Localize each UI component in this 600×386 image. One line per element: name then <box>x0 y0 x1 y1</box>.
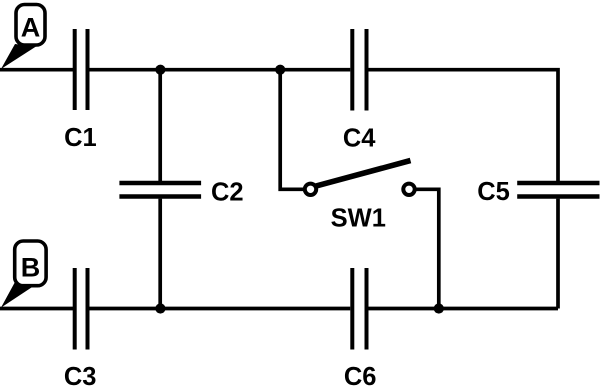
svg-text:C4: C4 <box>343 125 376 153</box>
node junction bottom-right <box>434 303 444 313</box>
capacitor C4 <box>352 29 366 111</box>
capacitor C1 <box>75 29 88 110</box>
node junction top-mid <box>275 65 285 75</box>
wire C6 to bottom-right corner <box>369 307 559 311</box>
wire B to C3 <box>0 307 73 311</box>
svg-text:C6: C6 <box>344 363 377 386</box>
wire C2 branch vertical bottom <box>158 199 162 309</box>
node junction bottom-left <box>155 303 165 313</box>
svg-text:SW1: SW1 <box>331 205 386 233</box>
svg-text:C3: C3 <box>64 363 97 386</box>
node B flag <box>1 241 46 308</box>
capacitor C3 <box>75 268 88 350</box>
svg-text:B: B <box>21 253 41 283</box>
switch SW1 <box>305 161 415 196</box>
capacitor C2 <box>119 183 201 197</box>
node junction top-left <box>155 65 165 75</box>
svg-text:C5: C5 <box>477 178 510 206</box>
svg-text:C1: C1 <box>64 124 97 152</box>
node A flag <box>1 5 45 70</box>
wire switch branch from top junction <box>280 70 303 190</box>
wire C4 to top-right corner and down to C5 <box>369 70 559 181</box>
svg-text:C2: C2 <box>211 179 244 207</box>
wire A to C1 <box>0 68 73 72</box>
wire C2 branch vertical top <box>158 70 162 181</box>
wire switch right pole down to bottom wire <box>416 189 439 308</box>
wire C5 down to bottom-right corner <box>556 199 560 309</box>
capacitor C6 <box>352 268 366 350</box>
capacitor C5 <box>517 183 599 197</box>
wire C3 to C6 <box>90 307 351 311</box>
wire C1 to C4 <box>90 68 351 72</box>
svg-text:A: A <box>21 12 41 42</box>
